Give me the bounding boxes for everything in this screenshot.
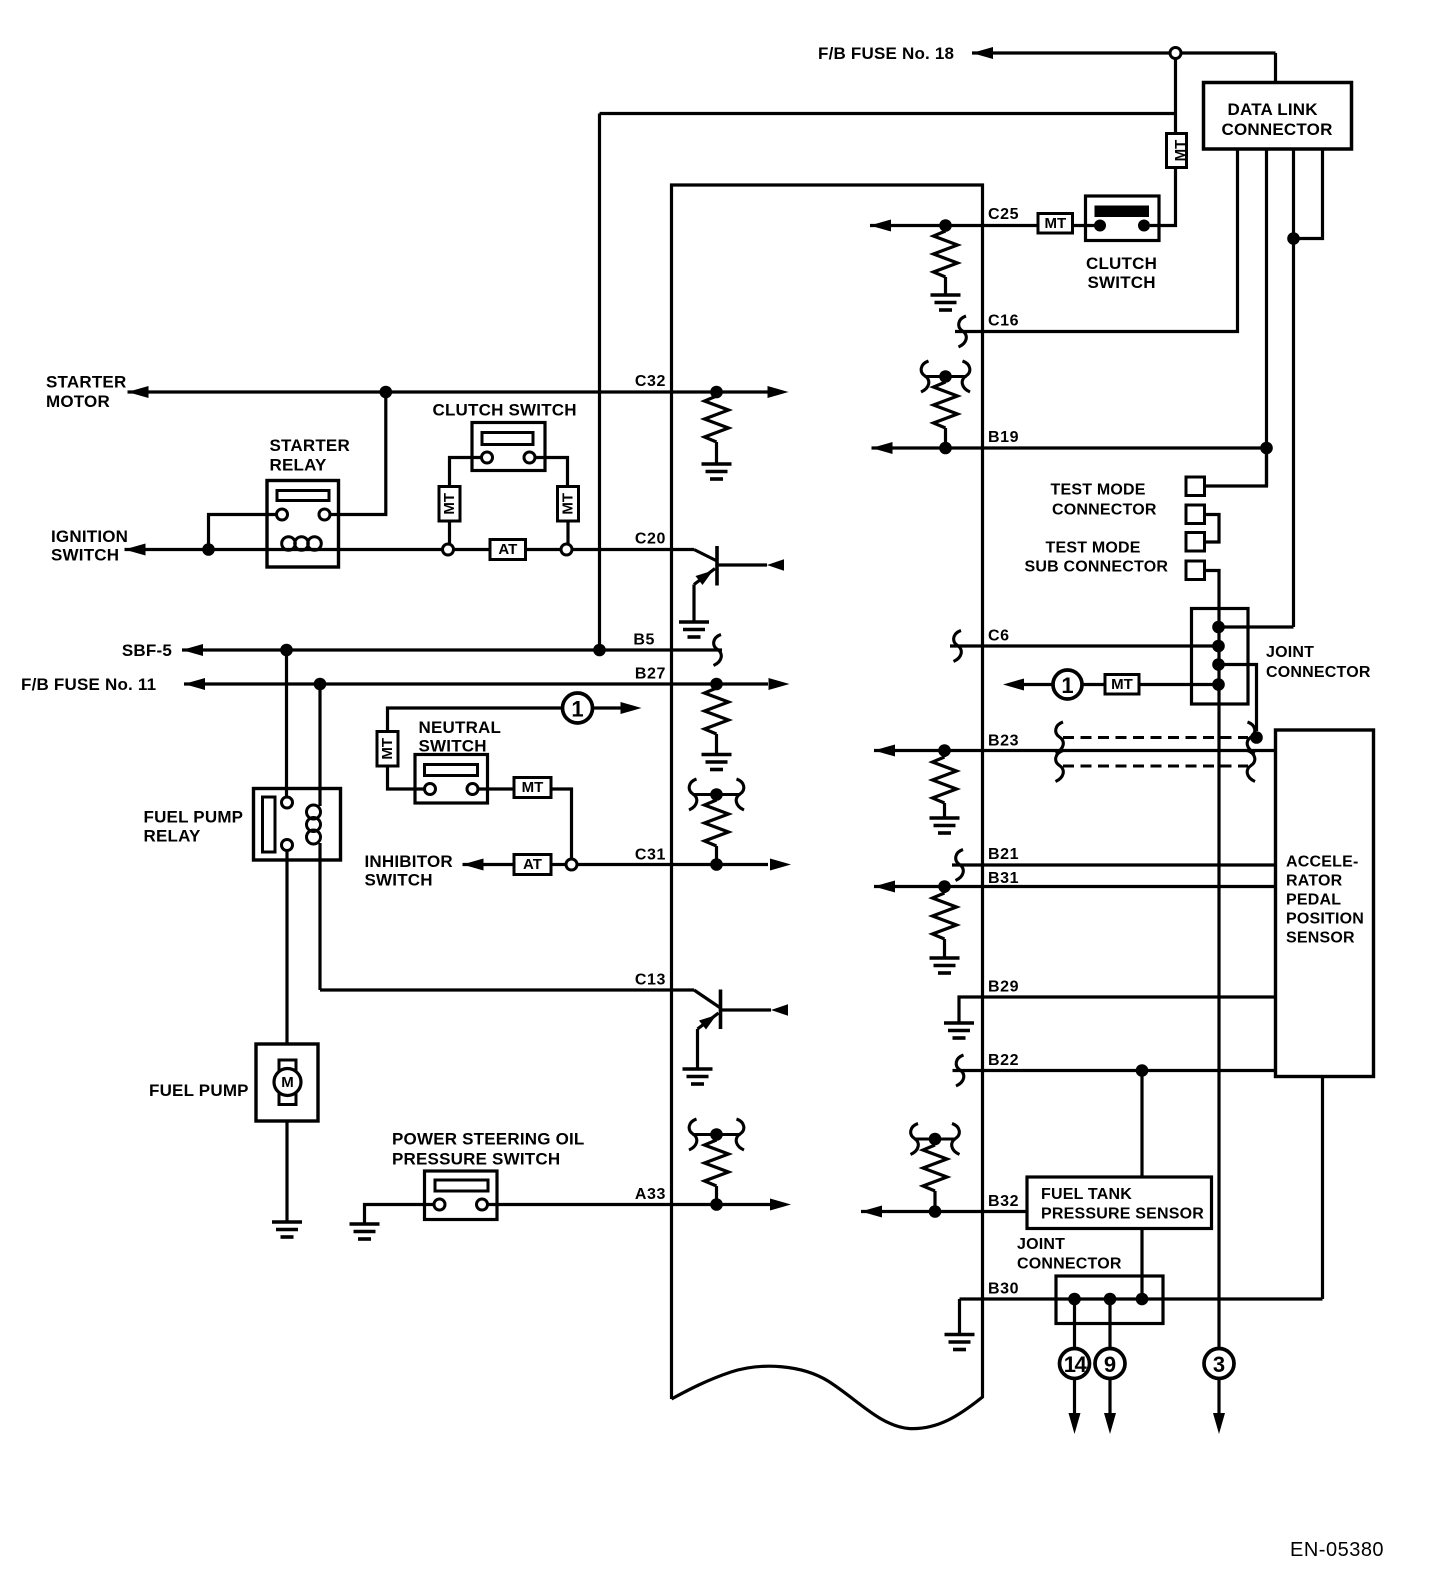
node F/B fuse 11 junction (314, 678, 327, 691)
svg-text:SWITCH: SWITCH (1088, 273, 1156, 292)
svg-text:B23: B23 (988, 733, 1019, 750)
node pin3/pin4 junction (1287, 232, 1300, 245)
svg-text:MT: MT (560, 493, 577, 515)
switch CLUTCH SWITCH (right) box (1086, 196, 1160, 241)
node shield junction (1250, 731, 1263, 744)
wire SBF-5 / B5 (182, 648, 722, 651)
ground below B31 resistor (930, 958, 960, 973)
sensor ACCELERATOR PEDAL POSITION SENSOR box (1276, 730, 1374, 1077)
ground at B29 (944, 1023, 974, 1038)
joint connector lower pin dots (1068, 1293, 1081, 1306)
svg-text:1: 1 (1061, 673, 1073, 698)
node circled 14 (1060, 1349, 1090, 1379)
node starter motor junction (380, 386, 393, 399)
svg-text:INHIBITOR: INHIBITOR (365, 852, 453, 871)
ground below C32 resistor (702, 464, 732, 479)
relay STARTER RELAY box (267, 481, 339, 568)
svg-text:IGNITION: IGNITION (51, 527, 128, 546)
fuel pump relay coil (307, 805, 321, 819)
arrow C32 (right, inside ECM) (768, 386, 789, 398)
svg-text:TEST MODE: TEST MODE (1046, 540, 1141, 557)
arrow A33 (right, inside ECM) (770, 1199, 791, 1211)
svg-text:CLUTCH SWITCH: CLUTCH SWITCH (433, 401, 577, 420)
wire joint pin4 to MT (1139, 683, 1219, 686)
svg-text:B31: B31 (988, 870, 1019, 887)
MT box (right, vertical) (558, 487, 579, 522)
svg-text:SENSOR: SENSOR (1286, 930, 1355, 947)
svg-text:RELAY: RELAY (270, 456, 328, 475)
arrow to STARTER MOTOR (128, 386, 149, 398)
MT box on C25 wire (1038, 214, 1073, 234)
resistor below B31 (943, 887, 946, 894)
transistor Q2 at C13 (694, 990, 771, 1069)
svg-text:C25: C25 (988, 206, 1019, 223)
switch CLUTCH SWITCH (left) box (472, 423, 545, 471)
svg-text:B29: B29 (988, 979, 1019, 996)
svg-text:MT: MT (379, 738, 396, 760)
arrow C31 (right, inside ECM) (770, 859, 791, 871)
wire F/B FUSE No.18 feed (972, 51, 1276, 54)
wire joint pin to circled 9 (1108, 1299, 1111, 1349)
ground below Q2 (683, 1069, 713, 1084)
resistor below B23 (943, 751, 946, 758)
wire circled-1 branch (388, 708, 564, 732)
svg-text:FUEL PUMP: FUEL PUMP (144, 808, 244, 827)
break on C6 wire (954, 631, 962, 662)
fuel pump relay contacts (282, 797, 293, 808)
svg-text:C20: C20 (635, 531, 666, 548)
wire B21 (952, 863, 1276, 866)
wire B22 (953, 1069, 1276, 1072)
wire B31 (874, 885, 1276, 888)
svg-text:CONNECTOR: CONNECTOR (1052, 502, 1157, 519)
AT box on ignition wire (490, 540, 526, 560)
wire B19 (872, 446, 1267, 449)
svg-text:CONNECTOR: CONNECTOR (1017, 1256, 1122, 1273)
wire clutch right contact to MT (535, 458, 568, 487)
svg-text:C6: C6 (988, 628, 1010, 645)
arrow B27 (right, inside ECM) (769, 678, 790, 690)
arrow down from circled 9 (1108, 1378, 1111, 1428)
test mode sub connector pin (1186, 561, 1205, 580)
arrow right after circled 1 (592, 706, 622, 709)
svg-text:PRESSURE SWITCH: PRESSURE SWITCH (392, 1150, 560, 1169)
svg-text:MT: MT (441, 493, 458, 515)
starter relay coil (282, 537, 296, 551)
svg-text:14: 14 (1064, 1352, 1088, 1377)
ground at B30 (945, 1335, 975, 1350)
wire sensor down to joint connector (1140, 1229, 1143, 1300)
svg-text:AT: AT (523, 856, 542, 873)
resistor to B19 (944, 377, 947, 383)
svg-text:B30: B30 (988, 1281, 1019, 1298)
wire A33 (488, 1203, 771, 1206)
ground below Q1 (679, 622, 709, 637)
connector JOINT CONNECTOR (upper) box (1192, 609, 1249, 705)
svg-text:F/B FUSE No. 11: F/B FUSE No. 11 (21, 675, 156, 694)
wire B29 with ground (959, 997, 1276, 1023)
svg-text:CLUTCH: CLUTCH (1086, 254, 1157, 273)
ground below B23 resistor (930, 818, 960, 833)
arrow B19 (left, inside ECM) (872, 442, 893, 454)
wire B23 (874, 749, 1276, 752)
wire relay contact down to fuel pump (285, 851, 288, 1045)
node AT left open contact (443, 544, 454, 555)
ground at power steering switch (350, 1224, 380, 1239)
ECM module outline (torn box) (672, 185, 983, 1429)
break on B5 wire (714, 635, 722, 666)
wire MT down to C31 contact (551, 789, 572, 859)
joint connector pin dots (1212, 621, 1225, 634)
arrow to IGNITION SWITCH (125, 544, 146, 556)
node SBF-5 to fuel pump relay (280, 644, 293, 657)
svg-text:3: 3 (1213, 1352, 1225, 1377)
switch NEUTRAL SWITCH box (415, 755, 488, 804)
MT box (left, vertical) (439, 487, 460, 522)
svg-text:JOINT: JOINT (1266, 644, 1314, 661)
AT box (inhibitor) (514, 855, 551, 875)
wire C6 (950, 644, 1219, 647)
MT box (vertical, near DLC) (1167, 134, 1187, 168)
wire fuse11 down through relay coil (318, 684, 321, 806)
wire vertical x=599 (598, 114, 601, 651)
internal node with break pair (B27 chain) (693, 793, 741, 796)
wire fuel pump to ground (285, 1121, 288, 1221)
node circled 1 (right) (1053, 670, 1082, 699)
svg-text:MT: MT (1044, 215, 1066, 232)
arrow down from circled 14 (1073, 1378, 1076, 1428)
wire starter motor to relay contact (331, 392, 386, 515)
ground below B27 resistor (702, 755, 732, 770)
MT box (neutral, vertical) (377, 732, 398, 767)
node circled 9 (1095, 1349, 1125, 1379)
wire pin1 to DLC pin2 (1205, 448, 1267, 486)
node circled 1 (left) (563, 693, 593, 723)
svg-text:JOINT: JOINT (1017, 1236, 1065, 1253)
shield (dashed) around B23 wire (1063, 738, 1248, 767)
svg-text:C13: C13 (635, 972, 666, 989)
connector JOINT CONNECTOR (lower) box (1056, 1276, 1163, 1324)
resistor below B27 (705, 688, 729, 734)
node circled 3 (1204, 1349, 1234, 1379)
svg-text:FUEL PUMP: FUEL PUMP (149, 1081, 249, 1100)
sensor FUEL TANK PRESSURE SENSOR box (1027, 1177, 1212, 1229)
node B32 junction (929, 1205, 942, 1218)
svg-text:CONNECTOR: CONNECTOR (1222, 120, 1333, 139)
svg-text:RATOR: RATOR (1286, 873, 1343, 890)
transistor Q1 at C20 (694, 546, 767, 622)
node A33 junction (710, 1198, 723, 1211)
internal node with break pair (B19 chain) (925, 375, 967, 378)
svg-text:1: 1 (571, 697, 583, 722)
svg-text:B5: B5 (633, 632, 655, 649)
wire from fuse node down to MT (1174, 59, 1177, 136)
wire left contact to ground (365, 1205, 435, 1224)
arrow C25 (left) (870, 220, 891, 232)
svg-text:MT: MT (1172, 140, 1189, 162)
svg-text:A33: A33 (635, 1186, 666, 1203)
test mode connector pin 2 (1186, 505, 1205, 524)
wire joint pin3 to shield (1219, 665, 1257, 732)
wire IGNITION SWITCH / C20 (125, 548, 443, 551)
wire bracket joining pins 2 and 3 (1205, 515, 1220, 543)
wire DLC top feed (1274, 53, 1277, 84)
arrow to F/B FUSE No.18 (972, 47, 993, 59)
svg-text:B21: B21 (988, 846, 1019, 863)
break on C16 wire (959, 316, 967, 347)
test mode connector pin 1 (1186, 477, 1205, 496)
svg-text:ACCELE-: ACCELE- (1286, 854, 1359, 871)
starter relay contacts (277, 509, 288, 520)
svg-text:EN-05380: EN-05380 (1290, 1539, 1384, 1561)
wire clutch left contact to MT (450, 458, 482, 487)
svg-text:SWITCH: SWITCH (51, 546, 119, 565)
node B27 junction (710, 678, 723, 691)
svg-text:SWITCH: SWITCH (419, 737, 487, 756)
node open circle on fuse line (1170, 48, 1181, 59)
arrow to INHIBITOR SWITCH (463, 859, 484, 871)
MT box (joint connector) (1105, 675, 1139, 695)
node B19 junction (939, 442, 952, 455)
svg-text:C16: C16 (988, 313, 1019, 330)
svg-text:MT: MT (522, 779, 544, 796)
arrow left of circled 1 (1024, 683, 1054, 686)
wire sub connector down (long vertical) (1205, 571, 1220, 1350)
svg-text:C31: C31 (635, 847, 666, 864)
svg-text:NEUTRAL: NEUTRAL (419, 718, 502, 737)
node x599 join (593, 644, 606, 657)
internal node with break pair (A33 chain) (693, 1133, 741, 1136)
wire APPS bottom pin down to B30 (1321, 1077, 1324, 1300)
svg-text:STARTER: STARTER (270, 436, 350, 455)
test mode connector pin 3 (1186, 533, 1205, 552)
svg-text:MOTOR: MOTOR (46, 392, 110, 411)
wire relay left contact to ignition line (209, 515, 277, 550)
arrow B23 (left, inside ECM) (874, 745, 895, 757)
wire DLC pin3 (1292, 149, 1295, 627)
wire joint pin1 to DLC line (1219, 625, 1294, 628)
svg-text:TEST MODE: TEST MODE (1051, 482, 1146, 499)
power steering switch contacts (434, 1199, 445, 1210)
relay FUEL PUMP RELAY box (254, 789, 341, 861)
node B23 junction (938, 744, 951, 757)
svg-text:PRESSURE SENSOR: PRESSURE SENSOR (1041, 1206, 1204, 1223)
node B19/DLC junction (1260, 442, 1273, 455)
svg-text:POWER STEERING OIL: POWER STEERING OIL (392, 1130, 585, 1149)
svg-text:C32: C32 (635, 373, 666, 390)
internal node with break pair (B32 chain) (914, 1138, 956, 1141)
svg-text:F/B FUSE No. 18: F/B FUSE No. 18 (818, 44, 954, 63)
wire MT to circled 1 (1082, 683, 1105, 686)
arrow to F/B FUSE No.11 (184, 678, 205, 690)
svg-text:B27: B27 (635, 666, 666, 683)
svg-text:MT: MT (1111, 676, 1133, 693)
break on B22 wire (956, 1055, 964, 1086)
node inhibitor open contact (566, 859, 577, 870)
wire STARTER MOTOR / C32 (128, 390, 769, 393)
wire horizontal feed y=113 (600, 112, 1176, 115)
svg-text:B19: B19 (988, 429, 1019, 446)
arrow B32 (left, inside ECM) (861, 1206, 882, 1218)
svg-text:AT: AT (498, 541, 517, 558)
svg-text:B32: B32 (988, 1193, 1019, 1210)
resistor below C25 (944, 226, 947, 232)
wire B32 (861, 1210, 1027, 1213)
motor FUEL PUMP box (256, 1044, 318, 1121)
node ignition junction (202, 543, 215, 556)
ground below C25 resistor (931, 295, 961, 310)
wire DLC pin2 down to test mode (1265, 149, 1268, 486)
resistor to A33 (715, 1135, 718, 1141)
svg-text:FUEL TANK: FUEL TANK (1041, 1186, 1132, 1203)
node C32 junction (710, 386, 723, 399)
node C25 junction (939, 219, 952, 232)
clutch switch contacts (482, 452, 493, 463)
svg-text:M: M (281, 1074, 294, 1091)
node C31 junction (710, 858, 723, 871)
neutral switch contacts (425, 784, 436, 795)
resistor to B32 (933, 1139, 936, 1145)
svg-text:PEDAL: PEDAL (1286, 892, 1341, 909)
wire C13 (320, 988, 694, 991)
svg-text:CONNECTOR: CONNECTOR (1266, 664, 1371, 681)
arrow to SBF-5 (182, 644, 203, 656)
svg-text:STARTER: STARTER (46, 373, 126, 392)
connector DATA LINK CONNECTOR box (1204, 83, 1352, 150)
wire C25 (870, 224, 1038, 227)
node AT right open contact (561, 544, 572, 555)
svg-text:9: 9 (1104, 1352, 1116, 1377)
wire joint pin to circled 14 (1073, 1299, 1076, 1349)
break on B21 wire (956, 850, 964, 881)
svg-text:DATA LINK: DATA LINK (1228, 100, 1319, 119)
wire F/B FUSE No.11 / B27 (184, 682, 768, 685)
arrow down from circled 3 (1217, 1378, 1220, 1428)
svg-text:POSITION: POSITION (1286, 911, 1364, 928)
svg-text:B22: B22 (988, 1052, 1019, 1069)
wire DLC pin4 joins pin3 (1294, 149, 1323, 239)
node B22 junction (1136, 1064, 1149, 1077)
wire MT to clutch switch (1150, 168, 1176, 226)
wire B30 (960, 1297, 1323, 1300)
resistor to C31 (715, 795, 718, 801)
wire SBF-5 down to relay contact (285, 650, 288, 797)
arrow B31 (left, inside ECM) (874, 881, 895, 893)
svg-text:RELAY: RELAY (144, 827, 202, 846)
ground below fuel pump (272, 1222, 302, 1237)
wire MT to neutral switch left contact (388, 766, 425, 789)
svg-text:SBF-5: SBF-5 (122, 641, 172, 660)
node B31 junction (938, 880, 951, 893)
MT box (neutral, horizontal) (514, 778, 551, 798)
wire C31 (463, 863, 515, 866)
wire B30 ground stub (958, 1299, 961, 1334)
switch POWER STEERING OIL PRESSURE SWITCH box (425, 1171, 498, 1220)
wire C16 (955, 149, 1238, 332)
wire MT to AT contact (448, 521, 451, 544)
resistor below C32 (705, 396, 729, 442)
wire B22 down to fuel tank pressure sensor (1140, 1071, 1143, 1178)
svg-text:SUB CONNECTOR: SUB CONNECTOR (1025, 559, 1169, 576)
svg-text:SWITCH: SWITCH (365, 871, 433, 890)
wire MT to AT right contact (566, 521, 569, 544)
wire neutral right contact to MT (478, 787, 514, 790)
